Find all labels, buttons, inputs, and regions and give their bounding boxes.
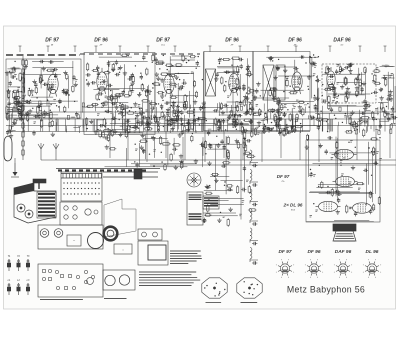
node [322,95,323,96]
node [29,88,30,89]
resistor [269,109,275,111]
ground [121,111,123,113]
capacitor [72,76,75,78]
capacitor [244,129,246,132]
wire [95,106,141,108]
capacitor [133,126,135,129]
node [135,65,136,66]
shield dashed line [6,54,80,56]
value label [176,108,179,110]
capacitor [115,61,118,63]
tube V6 DAF96 [327,67,335,90]
capacitor [325,150,328,152]
resistor [7,91,9,97]
wire [215,144,217,190]
resistor [72,86,74,91]
capacitor [154,58,157,60]
ground [215,178,217,180]
node [325,72,326,73]
capacitor [180,111,183,113]
resistor [273,91,275,97]
value label [292,103,295,105]
resistor [296,115,298,120]
capacitor [314,105,317,107]
capacitor [165,101,167,104]
resistor [13,68,15,72]
capacitor [323,99,325,102]
capacitor [75,113,78,115]
wire [326,80,328,101]
node [348,142,349,143]
capacitor [116,73,118,76]
front knob 1 [40,229,49,238]
node [129,110,130,111]
resistor [146,69,148,74]
value label [349,91,352,93]
wire [380,66,394,68]
wire [381,77,394,79]
capacitor [316,79,318,82]
resistor [286,80,288,85]
wire [394,86,396,112]
capacitor [135,163,138,165]
wire [209,143,242,145]
node [194,115,195,116]
ground [175,165,177,167]
node [313,54,314,55]
wire drop 8 [242,132,244,161]
tuning unit chassis [14,183,56,223]
capacitor [267,127,269,130]
front speaker hole [88,233,104,249]
speaker ring dark [104,227,118,241]
node [311,173,312,174]
wire [7,109,9,120]
node [99,99,100,100]
ground [156,72,158,74]
node [232,90,233,91]
node [265,125,266,126]
wire [18,114,50,116]
tube V2 DF96 [97,68,107,94]
capacitor [349,63,351,66]
node [259,126,260,127]
ground [359,117,361,119]
left component ladder [22,56,24,160]
wire [316,187,352,189]
ground [273,97,275,99]
value label [228,83,231,85]
top connection stubs [19,46,21,52]
node [285,76,286,77]
resistor [170,119,172,125]
wire [317,75,319,119]
value label [337,82,340,84]
resistor [372,138,377,140]
capacitor [193,119,195,122]
capacitor [217,119,219,122]
capacitor [112,102,114,105]
resistor [51,121,53,125]
value label [389,75,392,77]
resistor [183,103,185,107]
front rect cutout [67,235,81,246]
resistor [298,78,300,84]
resistor [325,88,331,90]
wire [125,104,127,133]
resistor [277,98,279,104]
capacitor [255,89,258,91]
capacitor [311,62,314,64]
rear panel box [38,264,103,297]
ground [20,117,22,119]
resistor [21,106,23,111]
capacitor [285,125,288,127]
resistor [110,96,112,101]
value label [151,136,154,138]
wire [120,132,264,134]
node [237,74,238,75]
resistor [172,118,177,120]
node [307,103,308,104]
resistor [176,64,181,66]
stage box if2 [253,52,310,131]
node [371,73,372,74]
wire drop 1 [109,132,111,159]
bus rail 2 [6,125,396,127]
node [156,103,157,104]
node [149,93,150,94]
resistor [333,87,335,91]
node [159,68,160,69]
node [23,96,24,97]
resistor [349,118,351,124]
svg-text:ZF: ZF [230,45,234,47]
resistor [173,110,175,116]
wire [124,64,126,93]
node [267,119,268,120]
value label [356,126,359,128]
capacitor [173,148,175,151]
node [320,111,321,112]
resistor [374,70,379,72]
ground [164,114,166,116]
capacitor [34,83,37,85]
node [14,61,15,62]
ground [108,129,110,131]
ferrite loop antenna [4,136,12,161]
resistor [236,79,238,84]
capacitor [199,107,202,109]
resistor [243,142,245,147]
node [50,110,51,111]
value label [376,151,379,153]
node [310,169,311,170]
stage box osc [84,53,155,135]
value label [336,96,339,98]
node [54,76,55,77]
loop antenna diagram 2 [237,278,262,298]
resistor [102,132,104,137]
wire [334,220,369,222]
wire [307,135,309,177]
capacitor [97,72,100,74]
node [196,68,197,69]
resistor [251,132,253,136]
capacitor [333,95,336,97]
node [119,103,120,104]
wire [278,75,314,77]
node [305,62,306,63]
resistor [353,122,355,128]
capacitor [337,199,340,201]
resistor [220,104,222,109]
node [161,152,162,153]
value label [284,104,287,106]
capacitor [142,56,145,58]
node [376,119,377,120]
node [22,98,23,99]
ground [187,128,189,130]
resistor [6,107,8,114]
resistor [17,107,22,109]
resistor [88,105,93,107]
wire [168,66,200,68]
node [234,125,235,126]
socket diagram DAF 96 [334,259,352,277]
capacitor [107,62,110,64]
capacitor [99,92,101,95]
wire [8,130,16,132]
svg-text:DF 97: DF 97 [156,38,170,44]
resistor [168,116,170,121]
wire [309,192,370,194]
node [30,100,31,101]
capacitor [269,56,271,59]
wire [310,191,360,193]
ground [161,78,163,80]
ground [341,85,343,87]
value label [110,131,113,133]
resistor [250,104,252,108]
ground [228,115,230,117]
wire [359,110,361,133]
value label [134,130,137,132]
capacitor [168,123,170,126]
ground [167,107,169,109]
node [322,84,323,85]
wire [315,112,379,114]
node [355,147,356,148]
svg-text:DF 97: DF 97 [277,174,290,179]
capacitor [336,190,338,193]
capacitor [62,90,65,92]
ground [217,143,219,145]
capacitor [330,75,332,78]
resistor [152,55,154,60]
resistor [193,82,195,86]
value label [315,209,318,211]
capacitor [348,63,350,66]
resistor [235,115,237,120]
node [167,69,168,70]
resistor [185,102,187,108]
wire divider [203,52,205,132]
value label [249,102,252,104]
wire [169,56,171,127]
value label [313,174,316,176]
node [332,76,333,77]
capacitor [17,100,20,102]
value label [375,107,378,109]
node [108,65,109,66]
node [160,117,161,118]
wire [220,180,242,182]
wire [247,58,249,113]
node [326,121,327,122]
node [119,105,120,106]
wire drop 15 [375,126,377,163]
ground [299,105,301,107]
resistor [289,114,291,120]
resistor [364,68,366,73]
capacitor [354,212,357,214]
bus component drops [42,119,44,132]
capacitor [6,131,9,133]
node [86,79,87,80]
resistor [385,80,387,86]
ground [229,114,231,116]
wire [328,93,370,95]
wire [111,90,113,121]
capacitor [313,62,315,65]
node [254,113,255,114]
wire [340,94,365,96]
wire [40,68,42,88]
resistor [243,138,245,144]
capacitor [32,132,35,134]
resistor [356,91,358,96]
ground [75,82,77,84]
resistor [227,137,229,143]
value label [154,149,157,151]
node [175,119,176,120]
node [173,122,174,123]
capacitor [223,146,226,148]
capacitor [19,111,22,113]
resistor [96,95,98,99]
ground [29,109,31,111]
ground [333,86,335,88]
node [152,87,153,88]
node [20,91,21,92]
resistor [141,85,143,90]
capacitor [379,125,382,127]
wire [154,81,156,107]
resistor [362,117,369,119]
resistor [295,125,301,127]
resistor [107,97,113,99]
ground [390,97,392,99]
node [50,104,51,105]
capacitor [217,127,220,129]
node [225,81,226,82]
capacitor [126,120,128,123]
value label [24,94,27,96]
capacitor [356,77,359,79]
node [361,83,362,84]
wire [311,63,313,99]
node [132,90,133,91]
node [151,109,152,110]
node [42,80,43,81]
value label [236,140,239,142]
capacitor [201,144,204,146]
wire [204,101,206,131]
tube V9 DL96 [316,201,341,211]
caption line mid [104,298,127,300]
resistor [35,88,37,93]
wire [175,72,194,74]
value label [110,111,113,113]
resistor [215,119,217,124]
wire [99,56,132,58]
capacitor [87,82,90,84]
resistor [243,132,245,138]
node [271,122,272,123]
value label [343,157,346,159]
capacitor [369,210,372,212]
resistor [264,127,269,129]
node [286,124,287,125]
node [110,90,111,91]
node [179,79,180,80]
capacitor [275,123,278,125]
value label [358,187,361,189]
resistor [372,148,374,155]
wire [317,89,319,113]
resistor [145,128,151,130]
capacitor [37,105,39,108]
node [224,181,225,182]
node [371,151,372,152]
value label [385,64,388,66]
node [163,55,164,56]
svg-text:DAF 96: DAF 96 [335,249,352,255]
stage box mixer [6,59,81,118]
value label [344,114,347,116]
wire drop 11 [299,132,301,161]
resistor [236,120,238,124]
wire [202,137,204,156]
wire drop 10 [280,132,282,159]
resistor [199,117,205,119]
wire [228,123,249,125]
resistor [328,103,330,109]
wire [212,197,244,199]
capacitor [278,131,281,133]
capacitor [34,115,36,118]
value label [120,110,123,112]
node [338,95,339,96]
capacitor [387,97,389,100]
node [9,71,10,72]
value label [227,95,230,97]
value label [132,90,135,92]
capacitor [160,105,163,107]
node [334,115,335,116]
ground [294,128,296,130]
